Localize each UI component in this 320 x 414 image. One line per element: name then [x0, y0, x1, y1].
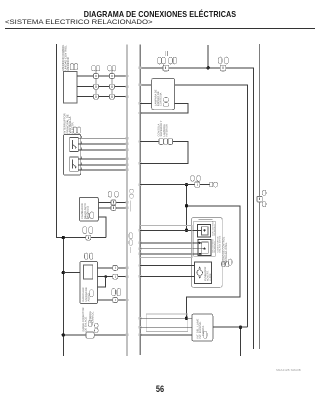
component module U1	[79, 197, 98, 221]
connector box P2	[198, 240, 211, 256]
label text above K2	[63, 113, 75, 133]
wire left lower branch vertical	[62, 238, 64, 356]
connector squares on K3 wires	[113, 265, 118, 302]
detail frame gray around R8..R11	[139, 226, 192, 258]
label text inside K5	[197, 319, 205, 339]
label text right of P boxes	[211, 220, 221, 253]
svg-text:INTERIOR: INTERIOR	[165, 124, 168, 137]
wire R9 y242.8	[140, 242, 202, 244]
node junction at 240.5,327.2	[239, 326, 242, 329]
inline connector on ground wire	[86, 235, 91, 240]
wire bottom right drop	[240, 327, 242, 356]
terminator pill at R6 end	[210, 182, 218, 187]
label cluster above R1 connector	[158, 57, 177, 64]
pill labels above x222 connector	[218, 57, 228, 64]
rail terminal squares left rail	[125, 75, 128, 336]
connector oval inside K3	[90, 290, 94, 297]
pill labels above K3	[85, 253, 93, 259]
wire R11 y253.8	[140, 253, 202, 255]
connector oval inside K5	[203, 331, 207, 338]
inline connector on wire R1 at x222	[220, 65, 225, 71]
detail frame control unit	[192, 218, 223, 288]
wire U1 ground elbow	[98, 217, 106, 238]
component combination meter K1	[63, 71, 76, 103]
label text above U2 connector	[158, 120, 169, 136]
wire R17 y334.8	[140, 334, 192, 336]
wire R12 y265.5	[140, 265, 194, 267]
wire R13 y276.3	[140, 275, 194, 277]
pill labels above K1	[70, 64, 77, 70]
wire R1 horizontal y68	[140, 68, 253, 349]
node junction at 208.2,67.8	[207, 66, 210, 69]
wire R16 y327.2 left	[140, 326, 192, 328]
svg-text:ENLACE DATOS: ENLACE DATOS	[219, 235, 222, 252]
switch S2 inside K2	[70, 157, 79, 171]
wire K3 pin 3	[98, 299, 127, 301]
pin detail inside P2	[202, 242, 209, 253]
wire K3 pin 2	[98, 276, 127, 278]
wire R8 y230.3	[140, 229, 201, 231]
component switch block K2	[64, 134, 81, 175]
connector oval inside U1	[90, 212, 94, 219]
wires K2 pins	[78, 138, 127, 170]
vertical label text outside frame	[223, 236, 229, 264]
inline connector on U2 top leg	[159, 138, 173, 145]
wire R15 y318.2	[140, 317, 192, 319]
connector column M1 on K1 wires	[94, 70, 99, 99]
label text above K1	[61, 44, 70, 70]
label text inside M1	[155, 89, 163, 106]
pin number marks in connector squares	[88, 67, 260, 302]
connector squares on U1 wires	[111, 200, 116, 211]
node junction at 186.5,230.3	[185, 229, 188, 232]
svg-text:DE ENLACE: DE ENLACE	[85, 317, 88, 332]
wire top middle vertical	[207, 45, 209, 68]
pin marks at K2 box edge	[80, 136, 83, 170]
inline connector on y335 wire	[86, 332, 94, 338]
component buzzer B1	[194, 262, 211, 284]
wire left trunk vertical	[56, 44, 106, 238]
wire K3 from trunk	[63, 272, 80, 274]
wire R10 y248.7	[140, 248, 204, 250]
wire K1 pin 1	[77, 75, 127, 77]
node pin dots right column	[199, 229, 206, 255]
connector ovals inside M1	[163, 98, 169, 102]
pill labels above U1 connector	[108, 191, 118, 197]
wire M1 U return to rail y113	[140, 103, 188, 112]
right harness rail	[139, 45, 141, 356]
tiny text above R1 connector	[164, 51, 167, 56]
svg-text:LLAVE: LLAVE	[209, 273, 212, 281]
wire R6 y184.6	[140, 184, 210, 186]
node junction at 186.5,318.2	[185, 317, 188, 320]
wire R2 horizontal y85 left	[140, 84, 151, 86]
pill labels left of right rail lower	[129, 233, 132, 246]
left harness rail	[126, 45, 128, 357]
pill labels above R6 connector	[191, 176, 200, 182]
svg-text:TELEFONO: TELEFONO	[214, 224, 217, 236]
svg-text:ENTRADA INTEL.: ENTRADA INTEL.	[225, 242, 228, 263]
rail terminal squares right rail	[139, 67, 142, 336]
wire vertical between R6 and R8	[186, 185, 188, 231]
node junction at 63.3,237.6	[62, 236, 65, 239]
node junction at 105.7,276.6	[104, 275, 107, 278]
pill labels above y335 connector	[88, 320, 98, 332]
component audio unit K3	[80, 261, 98, 303]
wire R16 y327.2 right	[213, 326, 248, 328]
svg-text:TELEFONO: TELEFONO	[214, 241, 217, 253]
pill labels right of rail connector	[262, 190, 266, 207]
wire bottom left y335	[63, 334, 127, 336]
tiny label text along left rail	[129, 201, 132, 212]
node junction at 186.5,205.8	[185, 204, 188, 207]
tiny caption inside frame top	[199, 219, 213, 220]
wire R7 corner path down to box5	[187, 206, 241, 318]
svg-text:AUDIO: AUDIO	[87, 293, 90, 301]
node junction at 63.3,334.9	[62, 333, 65, 336]
wire U1 pin A	[98, 201, 127, 203]
connector oval inside U1 second	[86, 213, 89, 219]
inline connector on right gray rail	[257, 196, 262, 202]
inline connector on R6	[195, 182, 200, 187]
pill labels above connector columns	[92, 65, 116, 71]
switch S1 inside K2	[70, 138, 79, 152]
wire M1 pin y103	[140, 102, 151, 104]
label text above y335 connector	[82, 307, 95, 331]
buzzer symbol	[197, 267, 203, 279]
connector column M2 on K1 wires	[110, 70, 115, 99]
svg-text:MEDIDOR: MEDIDOR	[66, 57, 70, 70]
wire K1 pin 2	[77, 86, 127, 88]
pill labels above K2	[74, 127, 81, 133]
label text inside K3	[82, 287, 90, 302]
pill labels top right of frame	[222, 261, 229, 267]
inner block of K3	[83, 265, 92, 279]
pill labels right of left rail	[130, 189, 133, 198]
pill label below vertical label	[228, 259, 232, 265]
sub frame around connectors	[194, 221, 216, 256]
pin detail inside P1	[202, 227, 209, 235]
inline connector on wire R1 at x166	[163, 65, 169, 71]
label text inside B1	[204, 267, 212, 282]
node junction at 186.5,184.6	[185, 183, 188, 186]
wire U1 pin B	[98, 207, 127, 209]
connector box P1	[198, 224, 211, 237]
detail frame gray around R15 R16	[146, 314, 188, 331]
component key switch K5	[192, 314, 213, 341]
svg-text:CORTESIA: CORTESIA	[160, 93, 163, 106]
pill labels above K3 pin3 connector	[112, 289, 121, 296]
wire K3 pin 1	[98, 267, 127, 269]
wire K1 pin 3	[77, 96, 127, 98]
wire K3 feedback elbow	[98, 277, 106, 288]
wire R2 horizontal y85 right	[175, 85, 248, 327]
component relay box M1 middle	[152, 78, 175, 109]
node junction at 63.3,272.6	[62, 271, 65, 274]
wire right gray rail	[259, 44, 261, 349]
label text inside U1	[81, 203, 89, 219]
pill labels above ground connector	[83, 227, 93, 234]
wire U2 loop y141 to y164	[140, 142, 188, 164]
